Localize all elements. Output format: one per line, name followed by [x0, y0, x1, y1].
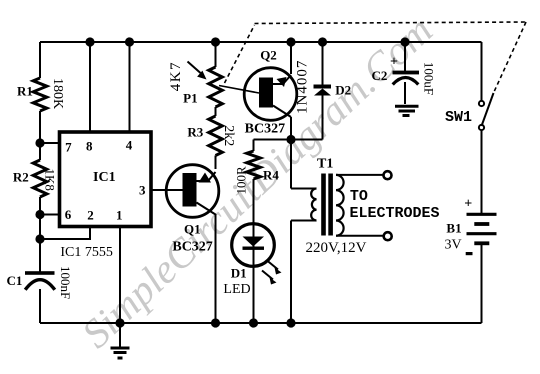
svg-text:+: +	[464, 197, 472, 212]
svg-text:P1: P1	[183, 91, 197, 106]
svg-text:ELECTRODES: ELECTRODES	[349, 205, 439, 222]
svg-text:BC327: BC327	[172, 240, 212, 255]
svg-text:1: 1	[116, 208, 123, 223]
svg-text:4K7: 4K7	[168, 61, 184, 91]
svg-text:8: 8	[86, 139, 93, 154]
svg-text:+: +	[390, 55, 398, 70]
svg-text:1K8: 1K8	[43, 169, 58, 191]
svg-text:IC1: IC1	[93, 170, 116, 185]
svg-text:R2: R2	[13, 170, 29, 185]
svg-text:1N4007: 1N4007	[295, 60, 311, 114]
svg-text:3V: 3V	[445, 238, 462, 253]
svg-text:100R: 100R	[234, 166, 249, 195]
svg-text:IC1 7555: IC1 7555	[60, 245, 113, 260]
svg-text:6: 6	[65, 207, 72, 222]
svg-text:Q1: Q1	[184, 222, 201, 237]
svg-text:4: 4	[126, 138, 133, 153]
svg-text:C1: C1	[7, 273, 23, 288]
svg-text:Q2: Q2	[260, 48, 277, 63]
svg-text:SW1: SW1	[445, 109, 472, 126]
svg-text:T1: T1	[317, 157, 333, 172]
svg-text:R3: R3	[187, 125, 203, 140]
svg-text:100uF: 100uF	[422, 62, 437, 95]
svg-text:BC327: BC327	[245, 122, 285, 137]
svg-text:B1: B1	[446, 221, 461, 236]
svg-text:7: 7	[65, 140, 72, 155]
svg-text:D1: D1	[231, 266, 247, 281]
svg-text:3: 3	[139, 183, 146, 198]
svg-text:100nF: 100nF	[58, 266, 73, 299]
svg-text:R1: R1	[17, 84, 33, 99]
svg-text:LED: LED	[223, 282, 250, 297]
svg-text:180K: 180K	[50, 78, 65, 109]
svg-text:C2: C2	[372, 68, 388, 83]
svg-text:TO: TO	[350, 188, 368, 205]
svg-text:D2: D2	[335, 83, 351, 98]
svg-text:2k2: 2k2	[221, 125, 236, 146]
svg-text:2: 2	[87, 208, 94, 223]
svg-text:R4: R4	[263, 168, 279, 183]
svg-text:220V,12V: 220V,12V	[306, 240, 367, 256]
